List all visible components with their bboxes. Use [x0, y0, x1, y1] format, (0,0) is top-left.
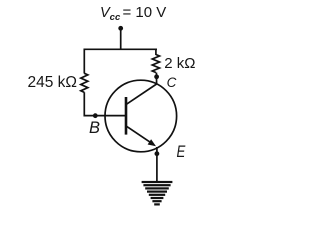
- wire left lower: [84, 92, 125, 115]
- ground: [142, 181, 173, 206]
- transistor Q1: [105, 80, 177, 152]
- svg-text:B: B: [89, 119, 100, 137]
- svg-text:Vcc= 10 V: Vcc= 10 V: [100, 4, 166, 23]
- wire Vcc drop: [120, 28, 122, 49]
- wire left drop: [83, 49, 85, 74]
- node B: [93, 113, 98, 118]
- svg-text:E: E: [177, 143, 187, 162]
- node E: [155, 151, 160, 156]
- node Vcc: [118, 26, 123, 31]
- svg-text:245 kΩ: 245 kΩ: [28, 74, 78, 91]
- svg-text:2 kΩ: 2 kΩ: [164, 55, 195, 72]
- node C: [154, 74, 159, 79]
- svg-text:C: C: [167, 75, 177, 90]
- wire top rail: [84, 48, 158, 50]
- resistor R1: [81, 73, 88, 92]
- wire collector: [155, 73, 157, 85]
- wire right drop: [155, 49, 157, 56]
- wire emitter: [156, 147, 158, 182]
- resistor R2: [152, 55, 159, 73]
